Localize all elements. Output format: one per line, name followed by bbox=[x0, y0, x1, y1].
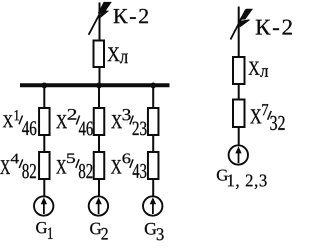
label G2 bbox=[90, 223, 107, 240]
label К-2 (left) bbox=[113, 9, 147, 23]
label К-2 (right) bbox=[256, 20, 292, 35]
fraction slash of label X2 bbox=[76, 116, 79, 125]
fraction slash of label X6 bbox=[130, 159, 133, 168]
generator G3 arrow bbox=[152, 203, 154, 214]
wire: equivalent feeder from fault K-2 to Хл bbox=[238, 7, 240, 57]
busbar bbox=[20, 83, 170, 87]
wire: bus to X3 bbox=[152, 85, 154, 108]
reactance X2 (value 46) bbox=[94, 108, 105, 135]
fault K-2 (right): lightning bolt bbox=[238, 9, 252, 26]
label X3/23 bbox=[111, 109, 146, 135]
generator G1 circle bbox=[34, 196, 53, 215]
node: junction of branch 3 bbox=[150, 83, 156, 89]
wire: X5 to G2 bbox=[98, 179, 100, 196]
label G1,2,3 bbox=[217, 170, 267, 189]
fraction slash of label X1 bbox=[19, 116, 23, 125]
wire: bus to X2 bbox=[98, 85, 100, 108]
label X4/82 bbox=[0, 154, 36, 179]
fault K-2 (right): slash stroke bbox=[231, 10, 247, 40]
reactance X5 (value 82) bbox=[94, 152, 105, 179]
reactance X6 (value 43) bbox=[148, 152, 159, 179]
fault K-2 (left): lightning bolt bbox=[99, 2, 111, 17]
node: junction of branch 1 bbox=[41, 83, 47, 89]
fault K-2 (left): slash stroke bbox=[89, 5, 105, 35]
fraction slash of label X7 bbox=[268, 111, 272, 120]
reactance X4 (value 82) bbox=[39, 152, 50, 179]
wire: X3 to X6 bbox=[152, 136, 154, 152]
fraction slash of label X5 bbox=[76, 159, 79, 168]
equivalent generator G1,2,3 arrow bbox=[238, 152, 240, 163]
label Хл (right) bbox=[249, 62, 268, 77]
wire: X4 to G1 bbox=[43, 179, 45, 196]
wire: feeder from fault K-2 down to busbar bbox=[99, 3, 101, 86]
label Хл (left) bbox=[108, 47, 128, 63]
reactor Хл (left) bbox=[94, 41, 105, 68]
wire: Хл to X7 bbox=[238, 84, 240, 99]
fraction slash of label X3 bbox=[130, 116, 133, 125]
fraction slash of label X4 bbox=[19, 159, 23, 168]
label X2/46 bbox=[56, 109, 92, 135]
reactance X3 (value 23) bbox=[148, 108, 159, 135]
label X6/43 bbox=[111, 154, 146, 179]
label X1/46 bbox=[3, 110, 36, 135]
generator G1 arrow bbox=[43, 203, 45, 214]
node: junction of branch 2 bbox=[96, 83, 102, 89]
reactance X1 (value 46) bbox=[39, 108, 50, 135]
label X7/32 bbox=[250, 104, 284, 130]
equivalent reactance X7 (value 32) bbox=[233, 100, 245, 128]
wire: bus to X1 bbox=[43, 85, 45, 108]
label X5/82 bbox=[56, 153, 92, 178]
reactor Хл (right) bbox=[233, 57, 245, 84]
label G3 bbox=[145, 223, 164, 240]
generator G2 circle bbox=[89, 196, 108, 215]
generator G3 circle bbox=[143, 196, 162, 215]
equivalent generator G1,2,3 circle bbox=[229, 145, 248, 164]
generator G2 arrow bbox=[98, 203, 100, 214]
label G1 bbox=[36, 222, 52, 239]
wire: X6 to G3 bbox=[152, 179, 154, 196]
wire: X1 to X4 bbox=[43, 136, 45, 152]
wire: X2 to X5 bbox=[98, 136, 100, 152]
wire: X7 to equivalent generator bbox=[238, 127, 240, 145]
